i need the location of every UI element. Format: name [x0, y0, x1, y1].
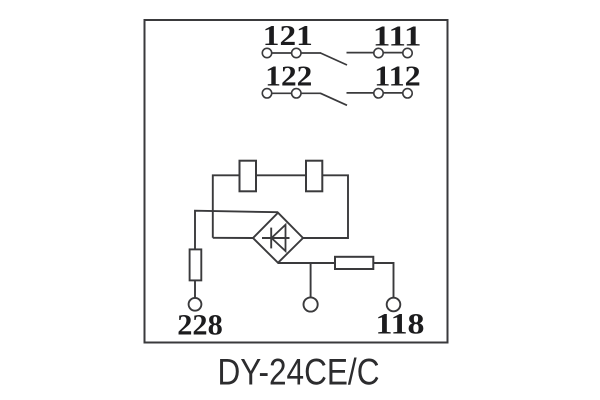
wire drop to middle terminal — [310, 263, 312, 297]
relay case outline — [145, 20, 448, 343]
terminal circle 111-a — [374, 48, 383, 57]
wire from left branch to bridge top vertex — [195, 211, 278, 250]
wire 112 fixed link — [347, 92, 408, 94]
svg-text:122: 122 — [265, 61, 312, 92]
wire switch blade 122 — [321, 93, 348, 105]
terminal circle 121-a — [262, 48, 271, 57]
terminal circle 228 — [189, 298, 202, 311]
wire 122 fixed link — [267, 92, 321, 94]
resistor R2 (horizontal, output) — [335, 257, 373, 269]
wire 111 fixed link — [347, 52, 408, 54]
svg-text:DY-24CE/C: DY-24CE/C — [218, 352, 380, 393]
svg-text:228: 228 — [177, 309, 223, 341]
terminal circle 111-b — [403, 48, 412, 57]
svg-text:118: 118 — [376, 309, 425, 341]
wire from loop-left vertical to bridge left vertex — [213, 237, 253, 239]
contact group 2 (122 / 112) — [267, 93, 408, 105]
wire bridge bottom to output row — [278, 262, 394, 264]
terminal circle 122-b — [292, 89, 301, 98]
svg-text:111: 111 — [373, 22, 422, 53]
bridge rectifier U1 (diamond) — [253, 213, 303, 263]
wire coil loop (top rectangle of internal circuit) — [213, 175, 348, 238]
terminal circle 118 — [387, 298, 401, 312]
terminal circle 112-a — [374, 89, 383, 98]
diode triangle (pointing left) — [272, 225, 286, 251]
svg-text:121: 121 — [263, 21, 313, 52]
wire switch blade 121 — [321, 53, 348, 65]
resistor R1 (left vertical) — [190, 249, 202, 280]
svg-text:112: 112 — [374, 61, 421, 92]
wire R1 to terminal 228 — [194, 280, 196, 297]
terminal circle middle (unlabeled) — [304, 297, 318, 311]
wire 121 fixed link — [267, 52, 321, 54]
wire R2 to terminal 118 — [373, 263, 393, 298]
terminal circle 122-a — [262, 89, 271, 98]
diode cathode bar — [270, 228, 272, 249]
diode inside bridge: horizontal lead — [262, 237, 290, 239]
contact group 1 (121 / 111) — [267, 53, 408, 65]
terminal circle 112-b — [403, 89, 412, 98]
coil resistor right (vertical box on loop) — [306, 161, 322, 192]
coil resistor left (vertical box on loop) — [240, 161, 257, 192]
terminal circle 121-b — [292, 48, 301, 57]
